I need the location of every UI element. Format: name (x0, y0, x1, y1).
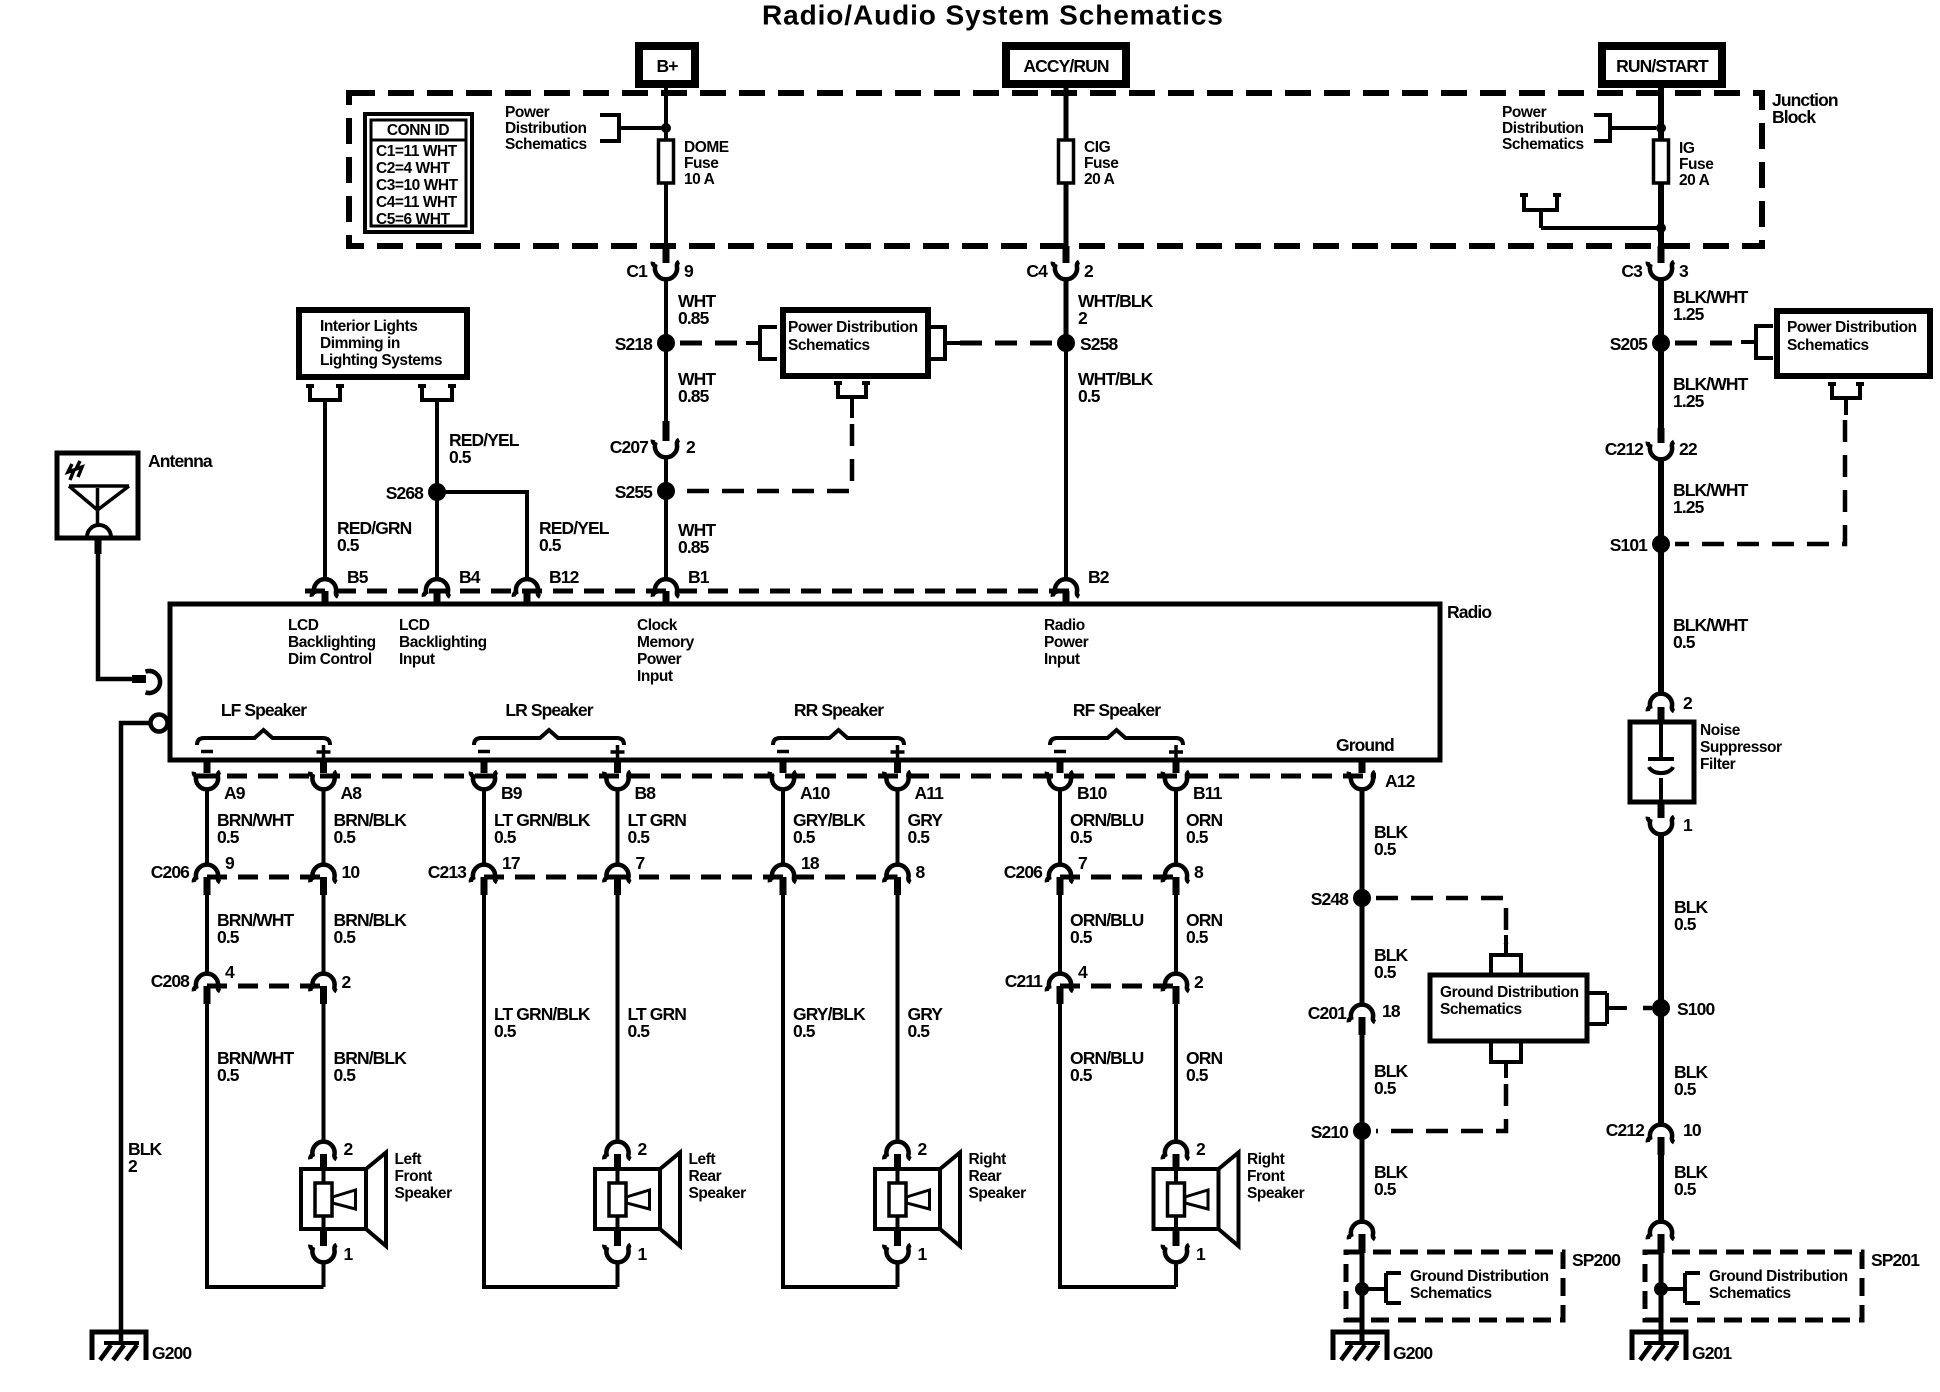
wire plus lead to Left Rear Speaker (616, 895, 620, 1143)
inline connector terminal at x=323.5 row2 (310, 974, 336, 992)
svg-text:1: 1 (638, 1244, 648, 1264)
svg-text:0.5: 0.5 (628, 1021, 651, 1041)
inline connector terminal at x=617.5 row1 (604, 865, 630, 883)
dashed link power distribution box to S255 (684, 424, 852, 491)
svg-text:A10: A10 (800, 783, 831, 803)
wire from B11 down (1174, 788, 1178, 866)
svg-text:Backlighting: Backlighting (399, 634, 487, 651)
svg-text:C2=4 WHT: C2=4 WHT (376, 160, 450, 177)
svg-text:C213: C213 (428, 862, 467, 882)
wire from A10 down (781, 788, 785, 866)
svg-text:2: 2 (344, 1139, 354, 1159)
junction dot in SP200 (1355, 1282, 1369, 1296)
wire from speaker pin 1 (Right Rear Speaker) (896, 1261, 900, 1287)
half connector above ground distribution box (1491, 935, 1521, 973)
radio pin B2 stub (1063, 591, 1070, 605)
svg-text:17: 17 (502, 853, 520, 873)
ground G201 (1632, 1332, 1686, 1360)
radio pin A8 terminal (310, 772, 336, 790)
svg-text:Dimming in: Dimming in (320, 335, 400, 352)
svg-text:0.5: 0.5 (334, 927, 357, 947)
svg-text:B8: B8 (635, 783, 657, 803)
speaker pin 2 stub (Left Front Speaker) (320, 1154, 327, 1170)
svg-text:RUN/START: RUN/START (1616, 56, 1709, 76)
svg-text:LR Speaker: LR Speaker (505, 700, 593, 720)
svg-text:0.5: 0.5 (908, 827, 931, 847)
noise suppressor pin 2 terminal (1648, 694, 1674, 712)
link to ground distribution bracket in SP201 (1661, 1287, 1685, 1291)
svg-text:Antenna: Antenna (148, 451, 213, 471)
svg-text:A11: A11 (915, 783, 945, 803)
svg-text:SP201: SP201 (1871, 1250, 1920, 1270)
noise suppressor pin 2 stub (1658, 707, 1665, 723)
connector C206 dashed line (B10/B11) (1060, 875, 1176, 880)
dashed link S205 to power distribution box (right) (1675, 341, 1741, 346)
connector C211 dashed line (1060, 984, 1176, 989)
svg-text:Fuse: Fuse (684, 155, 719, 172)
noise suppressor filter box U1 (1630, 722, 1694, 802)
svg-text:C207: C207 (610, 437, 648, 457)
splice S218 (657, 334, 675, 352)
speaker Right Rear Speaker symbol (875, 1169, 940, 1229)
svg-text:Power: Power (637, 651, 682, 668)
fuse DOME 10A (659, 140, 674, 183)
radio pin B1 stub (663, 591, 670, 605)
wire BLK 0.5 from A12 to S248 (1360, 788, 1365, 898)
svg-text:C4: C4 (1026, 261, 1048, 281)
antenna box (57, 453, 138, 538)
junction block internal branch connector stub (1520, 195, 1661, 228)
inline connector terminal at x=1060 row2 (1047, 974, 1073, 992)
bracket to IG wire (1594, 115, 1656, 141)
radio pin A9 stub (204, 759, 211, 773)
wire BLK/WHT 1.25 from C3 to S205 (1658, 278, 1664, 343)
svg-text:9: 9 (684, 261, 694, 281)
svg-text:10 A: 10 A (684, 171, 715, 188)
svg-text:C3: C3 (1621, 261, 1643, 281)
inline connector stub at x=207 row2 (204, 986, 211, 1004)
svg-text:0.5: 0.5 (1374, 962, 1397, 982)
ground G200 (1333, 1332, 1387, 1360)
svg-text:Power Distribution: Power Distribution (1787, 319, 1917, 336)
svg-text:1: 1 (1683, 815, 1693, 835)
wire branch S268 to radio B12 (437, 492, 527, 580)
svg-text:IG: IG (1679, 140, 1695, 157)
svg-text:0.5: 0.5 (1674, 1079, 1697, 1099)
svg-text:0.5: 0.5 (217, 827, 240, 847)
antenna lead terminal (146, 671, 161, 693)
connector C213 dashed line (484, 875, 898, 880)
svg-text:Distribution: Distribution (1502, 120, 1584, 137)
svg-text:2: 2 (918, 1139, 928, 1159)
radio pin A9 terminal (194, 772, 220, 790)
radio pin A11 stub (894, 759, 901, 773)
bracket into power distribution box (left) (746, 327, 777, 359)
radio pin B9 stub (481, 759, 488, 773)
inline connector stub at x=323.5 row1 (320, 877, 327, 895)
wire BLK 0.5 from noise suppressor to S100 (1658, 833, 1664, 1008)
junction dot internal branch (1656, 223, 1666, 233)
noise suppressor pin 1 stub (1658, 801, 1665, 818)
capacitor inside noise suppressor (1648, 724, 1674, 759)
ground distribution schematics box (1430, 975, 1587, 1041)
wire RUN/START feed (1658, 83, 1664, 140)
wire x=323.5 between C206 and C208/C211 (322, 895, 326, 975)
svg-text:Dim Control: Dim Control (288, 651, 372, 668)
svg-text:LCD: LCD (288, 617, 319, 634)
speaker Right Front Speaker symbol (1154, 1169, 1219, 1229)
inline connector stub at x=207 row1 (204, 877, 211, 895)
inline connector terminal at x=323.5 row1 (310, 865, 336, 883)
antenna lead stub (95, 538, 102, 554)
wire from speaker pin 1 (Right Front Speaker) (1174, 1261, 1178, 1287)
interior lights dimming box (299, 310, 467, 377)
svg-text:2: 2 (1683, 693, 1693, 713)
power source box B+ (639, 46, 695, 84)
svg-text:Ground Distribution: Ground Distribution (1410, 1268, 1549, 1285)
svg-text:0.5: 0.5 (334, 827, 357, 847)
svg-text:Speaker: Speaker (969, 1185, 1027, 1202)
wire from speaker pin 1 (Left Rear Speaker) (616, 1261, 620, 1287)
svg-text:3: 3 (1679, 261, 1689, 281)
splice pack SP201 dashed box (1645, 1252, 1862, 1320)
dashed link power distribution box to S258 (960, 341, 1054, 346)
connector C212 pin 10 stub (1658, 1137, 1665, 1155)
speaker pin 1 terminal (Left Front Speaker) (310, 1245, 336, 1263)
radio bottom connector dashed row (196, 774, 1376, 779)
svg-text:S205: S205 (1610, 334, 1648, 354)
antenna symbol (69, 486, 129, 526)
svg-text:Right: Right (1247, 1151, 1285, 1168)
svg-text:Rear: Rear (969, 1168, 1002, 1185)
svg-text:RF Speaker: RF Speaker (1073, 700, 1161, 720)
svg-text:0.5: 0.5 (908, 1021, 931, 1041)
svg-text:G201: G201 (1692, 1343, 1732, 1363)
svg-text:7: 7 (1078, 853, 1087, 873)
svg-text:8: 8 (916, 862, 926, 882)
svg-text:Input: Input (637, 668, 673, 685)
svg-text:Backlighting: Backlighting (288, 634, 376, 651)
wire below DOME fuse (664, 183, 668, 247)
inline connector terminal at x=484 row1 (471, 865, 497, 883)
svg-text:B4: B4 (459, 567, 481, 587)
radio pin A10 terminal (770, 772, 796, 790)
svg-text:7: 7 (636, 853, 645, 873)
wire WHT/BLK 0.5 from S258 to radio B2 (1064, 343, 1068, 580)
speaker pin 1 stub (Right Rear Speaker) (894, 1229, 901, 1246)
svg-text:Schematics: Schematics (505, 136, 587, 153)
wire BLK 0.5 from S100 to C212 (1658, 1008, 1664, 1126)
svg-text:A12: A12 (1385, 771, 1416, 791)
connector C212 pin 22 stub (1658, 428, 1665, 443)
wire BLK 0.5 from C212 to SP201 (1658, 1155, 1664, 1224)
inline connector stub at x=1060 row1 (1057, 877, 1064, 895)
inline connector terminal at x=207 row1 (194, 865, 220, 883)
connector C207 pin 2 stub (663, 421, 670, 441)
svg-text:2: 2 (1084, 261, 1094, 281)
splice S255 (657, 482, 675, 500)
svg-text:0.5: 0.5 (217, 927, 240, 947)
svg-text:Ground: Ground (1336, 735, 1394, 755)
svg-text:B+: B+ (656, 56, 678, 76)
svg-text:C1=11 WHT: C1=11 WHT (376, 143, 458, 160)
bracket from ground distribution box to S100 (1589, 993, 1627, 1024)
svg-text:B5: B5 (347, 567, 369, 587)
svg-text:B2: B2 (1088, 567, 1110, 587)
svg-text:Front: Front (1247, 1168, 1285, 1185)
svg-text:C211: C211 (1005, 971, 1043, 991)
radio pin A10 stub (780, 759, 787, 773)
svg-text:0.5: 0.5 (793, 1021, 816, 1041)
connector C206 dashed line (A9/A8) (207, 875, 324, 880)
wire x=1060 between C206 and C208/C211 (1058, 895, 1062, 975)
wire BLK 0.5 from S248 to C201 (1360, 898, 1365, 1006)
radio pin B11 stub (1173, 759, 1180, 773)
svg-text:B9: B9 (501, 783, 523, 803)
speaker pin 1 stub (Left Rear Speaker) (614, 1229, 621, 1246)
svg-text:Power: Power (505, 104, 550, 121)
radio pin B8 stub (614, 759, 621, 773)
connector C212 pin 10 terminal (1648, 1125, 1674, 1143)
junction block dashed outline (349, 93, 1762, 246)
polarity plus LF Speaker (317, 750, 331, 754)
connector C208 dashed line (207, 984, 324, 989)
svg-text:Power Distribution: Power Distribution (788, 319, 918, 336)
svg-text:Schematics: Schematics (1787, 337, 1869, 354)
speaker pin 1 terminal (Right Rear Speaker) (884, 1245, 910, 1263)
wire minus lead to Left Rear Speaker (484, 895, 618, 1287)
svg-text:2: 2 (1078, 308, 1088, 328)
svg-text:S255: S255 (615, 482, 653, 502)
splice S101 (1652, 535, 1670, 553)
svg-text:0.5: 0.5 (1374, 1179, 1397, 1199)
radio pin B9 terminal (471, 772, 497, 790)
svg-text:10: 10 (1683, 1120, 1702, 1140)
splice pack SP200 dashed box (1346, 1252, 1563, 1320)
svg-text:9: 9 (225, 853, 235, 873)
svg-text:CIG: CIG (1084, 139, 1111, 156)
wire BLK/WHT 1.25 from S205 to C212 (1658, 351, 1664, 428)
speaker pin 2 stub (Left Rear Speaker) (614, 1154, 621, 1170)
svg-text:C208: C208 (151, 971, 190, 991)
svg-text:2: 2 (1194, 972, 1204, 992)
svg-text:S101: S101 (1610, 535, 1648, 555)
terminal above SP201 (1648, 1222, 1674, 1240)
svg-text:S218: S218 (615, 334, 653, 354)
svg-text:Clock: Clock (637, 617, 678, 634)
svg-text:Block: Block (1772, 107, 1816, 127)
radio pin A11 terminal (884, 772, 910, 790)
speaker pin 1 terminal (Left Rear Speaker) (604, 1245, 630, 1263)
ground lead wire BLK 2 from radio jack (121, 723, 150, 1344)
svg-text:0.5: 0.5 (1374, 1078, 1397, 1098)
speaker pin 1 terminal (Right Front Speaker) (1163, 1245, 1189, 1263)
svg-text:0.85: 0.85 (678, 308, 710, 328)
connector C201 pin 18 terminal (1349, 1005, 1375, 1023)
svg-text:B10: B10 (1077, 783, 1108, 803)
link to ground distribution bracket in SP200 (1362, 1287, 1386, 1291)
wire below CIG fuse (1064, 183, 1069, 247)
noise suppressor pin 1 terminal (1648, 817, 1674, 835)
polarity minus LR Speaker (478, 750, 490, 754)
svg-text:G200: G200 (152, 1343, 192, 1363)
connector C3 pin 3 stub (1658, 246, 1665, 263)
svg-text:Radio/Audio System Schematics: Radio/Audio System Schematics (762, 0, 1224, 31)
power distribution schematics box (top right) (1777, 311, 1930, 376)
svg-text:0.5: 0.5 (1674, 914, 1697, 934)
svg-text:22: 22 (1679, 439, 1698, 459)
svg-text:18: 18 (801, 853, 820, 873)
bracket into right power distribution box (1741, 326, 1773, 358)
svg-text:2: 2 (1196, 1139, 1206, 1159)
wire from A11 down (896, 788, 900, 866)
wire RED/GRN 0.5 to radio B5 (323, 400, 327, 580)
svg-text:A8: A8 (341, 783, 363, 803)
inline connector terminal at x=1176 row1 (1163, 865, 1189, 883)
svg-text:0.5: 0.5 (1374, 839, 1397, 859)
speaker pin 2 terminal (Right Rear Speaker) (884, 1142, 910, 1160)
wire BLK/WHT 1.25 from C212 to S101 (1658, 458, 1664, 544)
svg-text:DOME: DOME (684, 139, 729, 156)
radio top connector dashed row (305, 589, 1080, 594)
svg-text:LCD: LCD (399, 617, 430, 634)
svg-text:S248: S248 (1311, 889, 1349, 909)
radio pin B11 terminal (1163, 772, 1189, 790)
bracket in SP200 (1386, 1273, 1401, 1303)
svg-text:Speaker: Speaker (395, 1185, 453, 1202)
svg-text:Ground Distribution: Ground Distribution (1709, 1268, 1848, 1285)
wire BLK 0.5 from C201 to S210 (1360, 1035, 1365, 1131)
radio pin B10 terminal (1047, 772, 1073, 790)
polarity plus RR Speaker (891, 750, 905, 754)
svg-text:Radio: Radio (1447, 602, 1491, 622)
half connector below interior lights (right) (418, 386, 456, 400)
splice S205 (1652, 334, 1670, 352)
speaker Left Rear Speaker symbol (595, 1169, 660, 1229)
inline connector stub at x=617.5 row1 (614, 877, 621, 895)
radio output group brace LR Speaker (474, 730, 624, 745)
inline connector stub at x=783 row1 (780, 877, 787, 895)
half connector below power distribution box (834, 383, 870, 418)
svg-text:Schematics: Schematics (1440, 1001, 1522, 1018)
svg-text:0.5: 0.5 (1186, 927, 1209, 947)
radio pin A12 stub (1359, 759, 1366, 773)
radio pin A12 terminal (1349, 772, 1375, 790)
svg-text:Memory: Memory (637, 634, 695, 651)
svg-text:CONN ID: CONN ID (387, 122, 450, 139)
svg-text:C206: C206 (1004, 862, 1043, 882)
bracket out of power distribution box (right) (928, 327, 960, 359)
wire through SP201 (1659, 1253, 1664, 1344)
svg-text:C3=10 WHT: C3=10 WHT (376, 177, 459, 194)
svg-text:Left: Left (689, 1151, 716, 1168)
inline connector stub at x=1176 row1 (1173, 877, 1180, 895)
connector C3 pin 3 terminal (1648, 262, 1674, 280)
wire plus lead to Right Front Speaker (1174, 1004, 1178, 1143)
svg-text:C5=6 WHT: C5=6 WHT (376, 211, 450, 228)
wire from B8 down (616, 788, 620, 866)
svg-text:20 A: 20 A (1084, 171, 1115, 188)
connector C4 pin 2 terminal (1053, 262, 1079, 280)
connector C1 pin 9 stub (663, 246, 670, 263)
svg-text:C206: C206 (151, 862, 190, 882)
svg-text:Power: Power (1502, 104, 1547, 121)
wire plus lead to Left Front Speaker (322, 1004, 326, 1143)
antenna jack on radio (151, 715, 168, 732)
radio pin B12 terminal (514, 579, 540, 597)
svg-text:0.85: 0.85 (678, 537, 710, 557)
terminal above SP200 (1349, 1222, 1375, 1240)
svg-text:0.5: 0.5 (334, 1065, 357, 1085)
svg-text:18: 18 (1382, 1001, 1401, 1021)
svg-text:4: 4 (225, 962, 235, 982)
svg-text:C212: C212 (1605, 439, 1644, 459)
svg-text:1: 1 (344, 1244, 354, 1264)
radio pin B1 terminal (653, 579, 679, 597)
radio output group brace LF Speaker (197, 730, 330, 745)
svg-text:1.25: 1.25 (1673, 497, 1705, 517)
dashed link S218 to power distribution box (680, 341, 746, 346)
dashed link S248 to ground distribution box (1376, 898, 1506, 944)
svg-text:0.5: 0.5 (1070, 927, 1093, 947)
bracket to B+ wire (600, 115, 662, 141)
wire from B9 down (482, 788, 486, 866)
stub into SP201 (1658, 1234, 1665, 1253)
wire WHT 0.85 from S255 to radio B1 (664, 491, 668, 580)
svg-text:0.5: 0.5 (628, 827, 651, 847)
inline connector stub at x=897.5 row1 (894, 877, 901, 895)
polarity minus RF Speaker (1054, 750, 1066, 754)
wire x=207 between C206 and C208/C211 (205, 895, 209, 975)
splice S258 (1057, 334, 1075, 352)
inline connector terminal at x=783 row1 (770, 865, 796, 883)
stub into SP200 (1359, 1234, 1366, 1253)
svg-text:C4=11 WHT: C4=11 WHT (376, 194, 458, 211)
half connector below ground distribution box (1489, 1043, 1523, 1078)
svg-text:0.5: 0.5 (494, 1021, 517, 1041)
wire ACCY/RUN feed (1064, 83, 1069, 139)
dashed link ground distribution box to S210 (1376, 1084, 1506, 1131)
svg-text:C1: C1 (626, 261, 648, 281)
svg-text:SP200: SP200 (1572, 1250, 1621, 1270)
svg-text:B1: B1 (688, 567, 710, 587)
wire from S268 to radio B4 (435, 492, 439, 580)
polarity plus RF Speaker (1169, 750, 1183, 754)
radio pin B4 terminal (424, 579, 450, 597)
connector ID table CONN ID (365, 114, 472, 232)
polarity minus RR Speaker (777, 750, 789, 754)
svg-text:Rear: Rear (689, 1168, 722, 1185)
polarity minus LF Speaker (201, 750, 213, 754)
svg-text:0.5: 0.5 (539, 535, 562, 555)
svg-text:Schematics: Schematics (1709, 1285, 1791, 1302)
svg-text:2: 2 (686, 437, 696, 457)
svg-text:G200: G200 (1393, 1343, 1433, 1363)
radio pin B2 terminal (1053, 579, 1079, 597)
radio pin B10 stub (1057, 759, 1064, 773)
svg-text:S100: S100 (1677, 999, 1715, 1019)
svg-text:Input: Input (399, 651, 435, 668)
svg-text:C201: C201 (1308, 1003, 1347, 1023)
radio output group brace RR Speaker (773, 730, 904, 745)
svg-text:2: 2 (342, 972, 352, 992)
svg-text:1.25: 1.25 (1673, 304, 1705, 324)
svg-text:LF Speaker: LF Speaker (221, 700, 307, 720)
svg-text:0.5: 0.5 (217, 1065, 240, 1085)
svg-text:8: 8 (1194, 862, 1204, 882)
svg-text:Speaker: Speaker (1247, 1185, 1305, 1202)
connector C207 pin 2 terminal (653, 440, 679, 458)
